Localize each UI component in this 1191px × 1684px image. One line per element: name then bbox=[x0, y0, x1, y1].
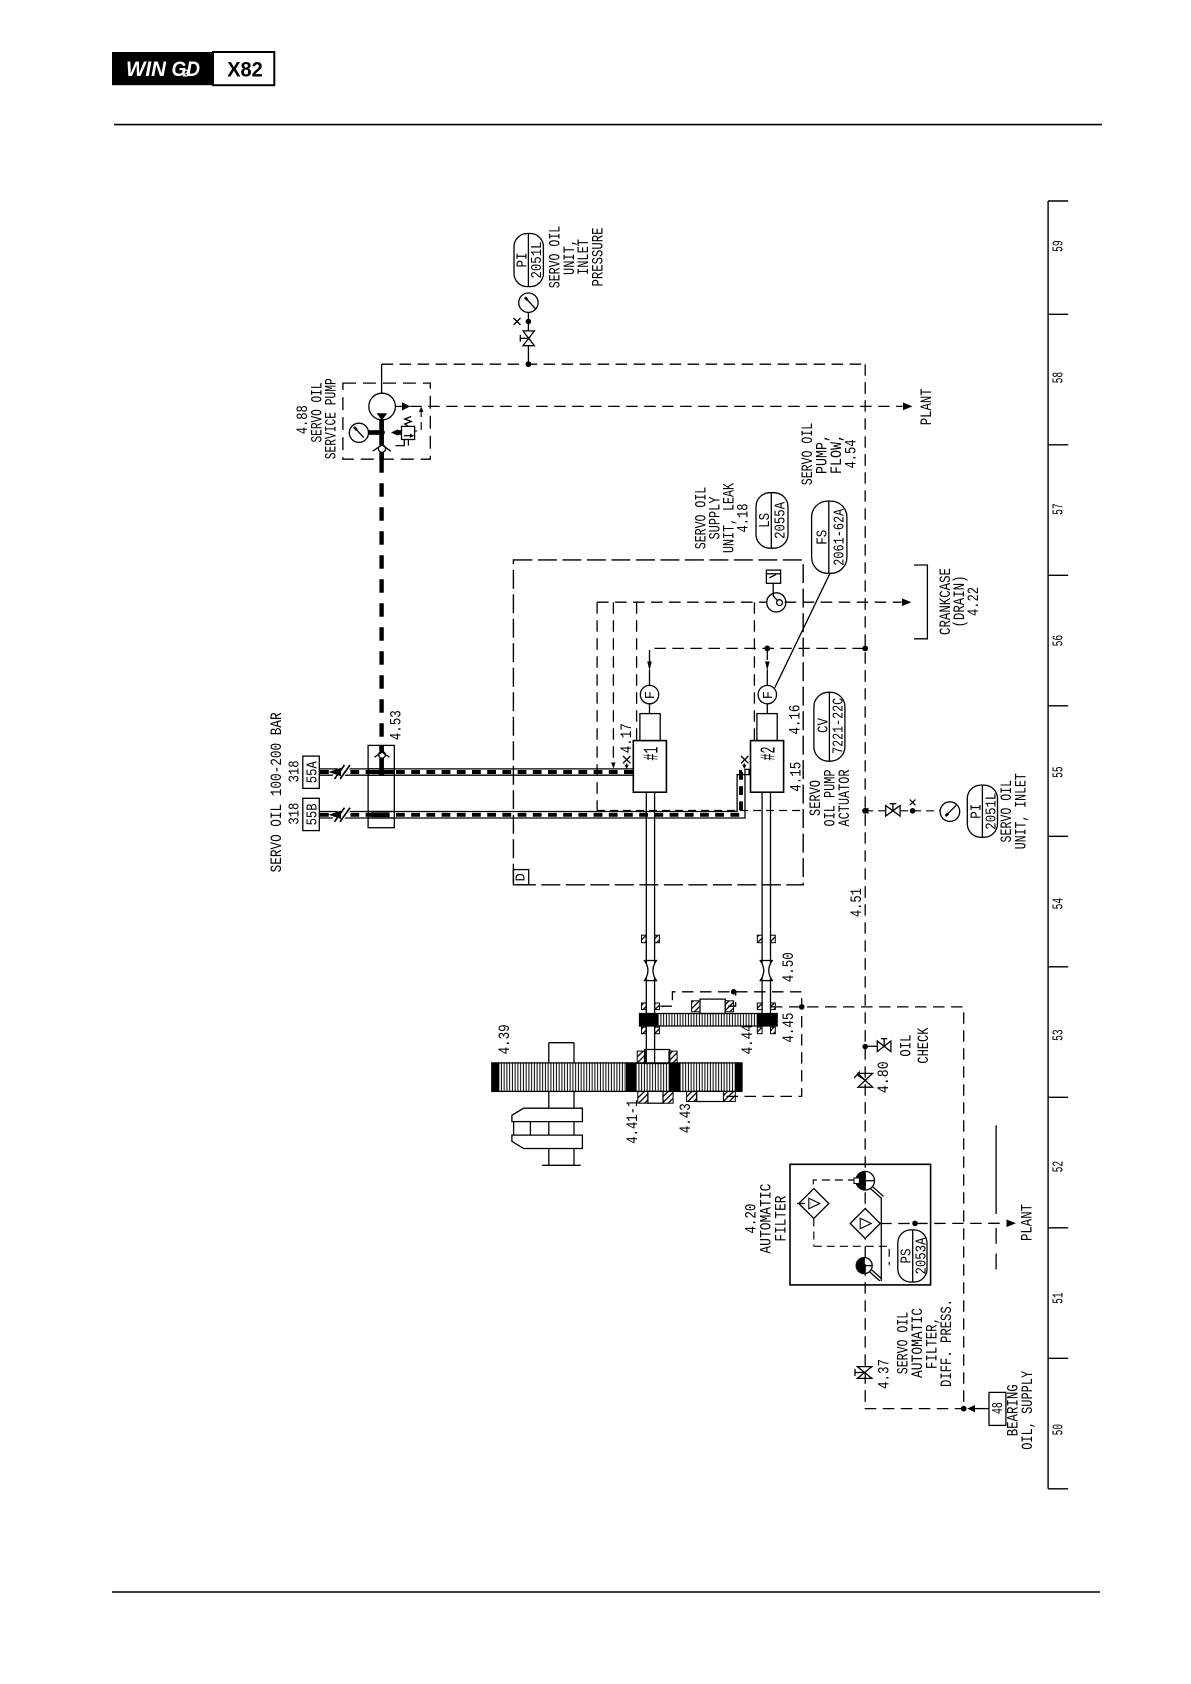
servo oil pump 1 bbox=[640, 714, 660, 741]
check valve in 4.53 bbox=[379, 745, 384, 751]
55A rail arrow and slashes bbox=[333, 765, 344, 780]
LS 2055A capsule bbox=[756, 493, 788, 549]
PI 2051L instrument wire bbox=[527, 346, 529, 365]
svg-text:4.45: 4.45 bbox=[780, 1013, 798, 1043]
svg-text:ACTUATOR: ACTUATOR bbox=[836, 769, 854, 826]
service pump circle bbox=[369, 393, 396, 420]
oil check stub wire bbox=[865, 1045, 877, 1047]
svg-text:FILTER: FILTER bbox=[773, 1195, 791, 1241]
test x pump1 inlet bbox=[623, 756, 630, 763]
svg-text:FS: FS bbox=[815, 530, 832, 545]
crank web upper bbox=[512, 1108, 583, 1121]
svg-text:4.51: 4.51 bbox=[848, 888, 866, 917]
servo oil service pump 4.88 enclosure bbox=[343, 383, 430, 459]
label SERVO OIL SUPPLY UNIT, LEAK 4.18 bbox=[693, 483, 753, 553]
svg-text:DIFF. PRESS.: DIFF. PRESS. bbox=[938, 1299, 956, 1387]
pump 1 drive shaft bbox=[645, 792, 647, 1063]
filter element diamond 1 bbox=[799, 1189, 829, 1219]
55B rail thick dashed core bbox=[320, 772, 751, 815]
main gear hub and bearings above bbox=[637, 1051, 645, 1063]
drop wire to pump 2 bbox=[753, 602, 755, 740]
D label box bbox=[513, 870, 528, 885]
motor linkage bar bbox=[880, 1198, 882, 1282]
leak bus dashed wire (y602) bbox=[597, 601, 766, 603]
svg-text:54: 54 bbox=[1052, 898, 1068, 910]
label SERVO OIL AUTOMATIC FILTER, DIFF. PRESS. bbox=[895, 1299, 957, 1387]
svg-text:52: 52 bbox=[1052, 1161, 1068, 1173]
crankshaft end flange bbox=[542, 1164, 581, 1166]
crank journal box bbox=[514, 1122, 531, 1136]
servo oil pump 2 bbox=[757, 714, 777, 741]
gear casing dashed wire to plant drain bbox=[771, 1007, 964, 1409]
service pump pressure gauge bbox=[349, 423, 368, 442]
svg-text:SERVO OIL 100-200 BAR: SERVO OIL 100-200 BAR bbox=[268, 712, 286, 872]
label 4.88 SERVO OIL SERVICE PUMP bbox=[294, 378, 341, 459]
PI gauge circle bbox=[519, 293, 538, 312]
svg-text:57: 57 bbox=[1052, 503, 1068, 514]
relief valve spring bbox=[405, 417, 411, 427]
55A rail lines through 4.53 block bbox=[368, 768, 394, 770]
intermediate gear bar 4.44 bbox=[640, 1014, 778, 1027]
filter motor 1 bbox=[856, 1171, 865, 1190]
svg-text:WIN: WIN bbox=[126, 58, 167, 81]
hub below main gear (pump 1 line) bbox=[638, 1091, 648, 1103]
FS 2061-62A capsule bbox=[812, 501, 847, 573]
PI 2051L capsule (inlet) bbox=[967, 785, 997, 837]
svg-text:4.22: 4.22 bbox=[965, 587, 983, 616]
svg-text:4.44: 4.44 bbox=[739, 1024, 757, 1054]
svg-text:2051L: 2051L bbox=[529, 242, 546, 279]
level switch flag box bbox=[766, 570, 780, 583]
arrow into 4.51 line bbox=[862, 808, 869, 814]
crank web lower bbox=[512, 1135, 583, 1148]
svg-text:#1: #1 bbox=[642, 747, 665, 761]
PI isolation valve bbox=[523, 331, 534, 338]
supply unit boundary D box bbox=[513, 560, 803, 885]
flow transmitter F2 bbox=[758, 685, 776, 703]
crankshaft stub above main gear bbox=[548, 1043, 550, 1063]
plant return dashed wire (top) bbox=[410, 405, 902, 407]
oil check valve bbox=[877, 1041, 884, 1052]
flow bus dashed wire (y648) bbox=[650, 648, 866, 661]
thick line pump to junction bbox=[379, 419, 384, 445]
svg-text:2053A: 2053A bbox=[914, 1238, 931, 1275]
svg-text:4.15: 4.15 bbox=[788, 762, 806, 792]
svg-text:4.18: 4.18 bbox=[735, 504, 753, 533]
plant boundary line bbox=[995, 1125, 997, 1214]
svg-text:2: 2 bbox=[182, 69, 189, 80]
318 55A connection box bbox=[303, 756, 320, 788]
leader line FS capsule to F2 bbox=[775, 573, 830, 687]
top rule bbox=[114, 124, 1102, 126]
test x pump2 inlet bbox=[741, 756, 748, 763]
thick wire check valve to 55A rail bbox=[379, 758, 384, 772]
crankshaft journal lines bbox=[548, 1091, 550, 1165]
svg-text:4.16: 4.16 bbox=[787, 705, 805, 735]
high pressure servo oil thick dashed pipe bbox=[379, 459, 383, 746]
node on 4.51 for oil check bbox=[862, 1044, 868, 1050]
relief valve square bbox=[402, 426, 415, 439]
bottom rule bbox=[112, 1591, 1100, 1593]
svg-text:OIL, SUPPLY: OIL, SUPPLY bbox=[1019, 1371, 1037, 1450]
motor 2 lever bbox=[869, 1272, 879, 1281]
arrow to PLANT (bottom) bbox=[1007, 1220, 1016, 1228]
svg-text:318: 318 bbox=[287, 803, 304, 825]
svg-text:55B: 55B bbox=[305, 803, 322, 825]
junction node on 55A rail bbox=[378, 769, 385, 776]
PI 2051L capsule bbox=[514, 234, 543, 287]
svg-text:X82: X82 bbox=[227, 58, 263, 82]
pump outlet triangle down bbox=[377, 413, 388, 420]
CV 7221-22C capsule bbox=[814, 692, 845, 761]
svg-text:4.53: 4.53 bbox=[388, 710, 406, 740]
shaft 2 upper bearings bbox=[757, 935, 762, 943]
hub below main gear (idler) bbox=[687, 1091, 697, 1101]
label SERVO OIL PUMP, FLOW, 4.54 bbox=[799, 423, 861, 486]
filtered oil wire to plant bbox=[880, 1222, 1006, 1224]
flow transmitter F1 bbox=[640, 685, 658, 703]
arrow down to F1 bbox=[647, 662, 652, 671]
shaft 2 coupling bbox=[760, 961, 774, 981]
relief inlet arrow thick bbox=[391, 429, 398, 436]
55A rail pipe double line bbox=[319, 768, 633, 770]
relief valve drain hook bbox=[396, 440, 405, 446]
shaft 1 bearings at gear bar bbox=[642, 1003, 647, 1010]
ruler numbers 59-50 bbox=[1052, 240, 1068, 1435]
test point x and node bbox=[900, 810, 940, 812]
pump outlet wire with arrow bbox=[395, 405, 402, 407]
crankcase drain bracket bbox=[914, 565, 927, 639]
label 4.20 AUTOMATIC FILTER bbox=[743, 1184, 791, 1254]
servo oil unit inlet main vertical dashed wire 4.51 bbox=[865, 364, 964, 1408]
svg-text:PRESSURE: PRESSURE bbox=[590, 228, 608, 287]
svg-text:4.43: 4.43 bbox=[677, 1103, 695, 1133]
pump inlet wire from supply line bbox=[381, 364, 383, 393]
junction node PI tap bbox=[526, 361, 532, 367]
label SERVO OIL UNIT, INLET bbox=[998, 773, 1031, 849]
svg-text:51: 51 bbox=[1052, 1292, 1068, 1304]
main gear wheel 4.39 bbox=[492, 1063, 742, 1092]
svg-text:PLANT: PLANT bbox=[918, 388, 936, 425]
X82 logo box bbox=[213, 52, 274, 85]
svg-text:318: 318 bbox=[287, 760, 304, 782]
label SERVO OIL UNIT, INLET PRESSURE bbox=[547, 226, 608, 289]
svg-text:4.41-1: 4.41-1 bbox=[624, 1100, 642, 1144]
shut-off valve 4.37 bbox=[857, 1367, 871, 1373]
WinGD logo black box bbox=[112, 52, 213, 85]
label BEARING OIL, SUPPLY bbox=[1005, 1371, 1038, 1450]
shut-off valve 4.80 bbox=[858, 1073, 873, 1080]
label SERVO OIL PUMP ACTUATOR bbox=[807, 769, 854, 826]
shaft 1 coupling bbox=[644, 961, 658, 981]
svg-text:55A: 55A bbox=[305, 761, 322, 783]
shaft 2 bearings at gear bar bbox=[757, 1003, 762, 1010]
svg-text:55: 55 bbox=[1052, 766, 1068, 778]
arrow to crankcase bbox=[902, 598, 911, 606]
gear train dashed boundary bbox=[660, 992, 801, 1097]
svg-text:58: 58 bbox=[1052, 372, 1068, 384]
thick line to box bottom bbox=[379, 452, 384, 459]
svg-text:2061-62A: 2061-62A bbox=[832, 509, 849, 566]
thick connector gauge to line bbox=[369, 430, 383, 435]
check valve in pump bbox=[378, 445, 385, 452]
servo oil unit inlet gauge bbox=[940, 802, 960, 822]
automatic filter box 4.20 bbox=[790, 1164, 931, 1285]
PS 2053A capsule bbox=[898, 1230, 927, 1282]
svg-text:F: F bbox=[644, 691, 659, 699]
svg-text:SERVICE PUMP: SERVICE PUMP bbox=[323, 378, 341, 459]
label CRANKCASE (DRAIN) 4.22 bbox=[937, 568, 983, 635]
node at bearing oil junction bbox=[961, 1406, 967, 1412]
svg-text:2055A: 2055A bbox=[772, 502, 789, 539]
318 55B connection box bbox=[303, 798, 320, 830]
inlet isolation valve bbox=[886, 806, 893, 817]
svg-text:OIL: OIL bbox=[898, 1035, 916, 1057]
level switch circle bbox=[767, 593, 786, 612]
svg-text:CHECK: CHECK bbox=[915, 1027, 933, 1063]
svg-text:PLANT: PLANT bbox=[1019, 1204, 1037, 1241]
svg-text:UNIT, INLET: UNIT, INLET bbox=[1013, 773, 1031, 849]
filter motor 2 bbox=[856, 1258, 864, 1274]
svg-text:4.17: 4.17 bbox=[618, 723, 636, 753]
svg-text:D: D bbox=[513, 873, 529, 881]
relief pilot dashed wire bbox=[415, 409, 421, 431]
55B rail pipe double line with elbow to pump 2 bbox=[319, 775, 750, 812]
cylinder ruler line bbox=[1047, 201, 1049, 1489]
pump 2 drive shaft bbox=[761, 792, 763, 1013]
svg-text:53: 53 bbox=[1052, 1029, 1068, 1041]
servo oil supply unit inlet dashed wire (y364) bbox=[382, 363, 866, 365]
svg-text:4.54: 4.54 bbox=[843, 440, 861, 469]
filter element diamond 2 bbox=[852, 1223, 862, 1225]
svg-text:50: 50 bbox=[1052, 1424, 1068, 1436]
svg-text:56: 56 bbox=[1052, 635, 1068, 647]
ruler ticks bbox=[1048, 201, 1068, 1489]
inlet dashed wire under rails (y810.5) bbox=[597, 810, 803, 812]
55A rail thick dashed core bbox=[320, 770, 633, 774]
drop wire to inlet line bbox=[596, 602, 598, 810]
inlet gauge stub wire right of 4.51 bbox=[865, 810, 886, 812]
node and drop to F2 bbox=[764, 646, 770, 652]
motor 1 lever bbox=[871, 1189, 882, 1199]
svg-text:F: F bbox=[762, 691, 777, 699]
55B rail arrow and slashes bbox=[333, 807, 344, 822]
svg-text:4.37: 4.37 bbox=[876, 1359, 894, 1389]
48 connection box bbox=[989, 1392, 1006, 1425]
drop wire to pump 1 bbox=[636, 602, 638, 740]
filter circuit dashed wires bbox=[813, 1180, 856, 1189]
svg-text:4.50: 4.50 bbox=[780, 952, 798, 982]
svg-text:4.39: 4.39 bbox=[496, 1024, 514, 1054]
node at 4.51 bbox=[862, 646, 868, 652]
idler hub and bearings above gear bar bbox=[692, 1001, 700, 1012]
bearing oil supply arrow bbox=[967, 1405, 975, 1412]
svg-text:59: 59 bbox=[1052, 240, 1068, 252]
4.53 distributor block bbox=[368, 745, 394, 827]
shaft 1 upper bearings bbox=[642, 935, 647, 943]
node on 4.51 at inlet line bbox=[862, 808, 868, 814]
junction dot in pump bbox=[378, 429, 384, 435]
svg-text:4.80: 4.80 bbox=[875, 1061, 893, 1093]
test point x and node bbox=[527, 312, 529, 331]
drop wire to 55A rail with arrow bbox=[612, 602, 614, 763]
arrow to PLANT (top) bbox=[903, 403, 913, 411]
svg-text:7221-22C: 7221-22C bbox=[830, 698, 847, 754]
svg-text:#2: #2 bbox=[759, 747, 782, 761]
